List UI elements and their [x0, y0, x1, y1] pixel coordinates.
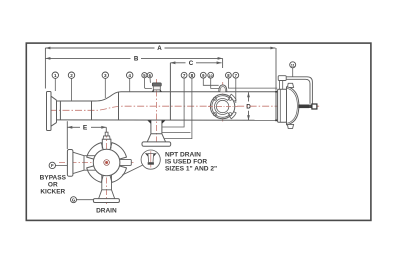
svg-text:A: A: [157, 45, 162, 52]
svg-text:10: 10: [209, 74, 213, 78]
svg-text:7: 7: [183, 73, 186, 78]
svg-text:3: 3: [104, 73, 107, 78]
svg-text:NPT DRAIN: NPT DRAIN: [165, 151, 201, 158]
svg-text:8: 8: [191, 73, 194, 78]
svg-text:11: 11: [291, 64, 295, 68]
svg-text:BYPASS: BYPASS: [40, 175, 67, 182]
svg-text:IS USED FOR: IS USED FOR: [165, 158, 207, 165]
svg-text:4: 4: [128, 73, 131, 78]
svg-text:KICKER: KICKER: [40, 189, 65, 196]
svg-text:DRAIN: DRAIN: [96, 208, 117, 215]
svg-text:2: 2: [70, 73, 73, 78]
svg-text:C: C: [189, 60, 194, 67]
svg-text:OR: OR: [48, 182, 58, 189]
svg-text:SIZES 1" AND 2": SIZES 1" AND 2": [165, 165, 217, 172]
svg-text:D: D: [246, 103, 251, 110]
svg-text:E: E: [83, 125, 88, 132]
svg-text:B: B: [134, 55, 139, 62]
svg-text:F: F: [51, 163, 54, 168]
svg-text:G: G: [72, 197, 76, 202]
svg-text:1: 1: [54, 73, 57, 78]
